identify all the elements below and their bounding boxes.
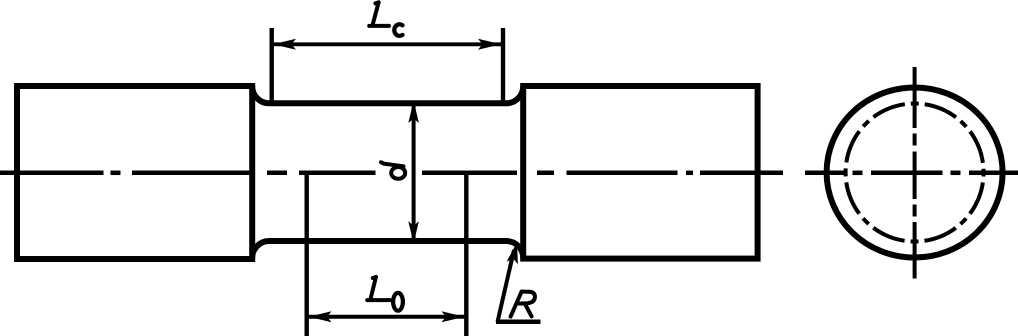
L0 extension line right (464, 171, 468, 336)
d arrow down (408, 221, 419, 243)
centerline circle view horizontal (805, 171, 1018, 176)
cross-section inner dash-dot circle (846, 104, 984, 242)
R leader line (498, 250, 515, 322)
label L0 : letter L (367, 277, 390, 300)
label R (511, 292, 535, 317)
right grip head outline (523, 86, 757, 259)
fillet top-right (506, 86, 523, 103)
R leader arrow (507, 243, 518, 265)
cross-section outer circle (827, 88, 1003, 258)
centerline circle view vertical (913, 67, 917, 279)
left grip head outline (17, 86, 252, 259)
label Lc : subscript c (394, 24, 402, 36)
label Lc : letter L (369, 2, 389, 26)
fillet bottom-left (252, 241, 269, 259)
Lc extension line right (501, 28, 505, 101)
Lc extension line left (270, 28, 274, 103)
reduced section top edge (269, 100, 506, 106)
Lc dimension line (273, 42, 501, 46)
d dimension line (412, 101, 416, 243)
centerline main view (horizontal dash-dot) (0, 171, 783, 176)
reduced section bottom edge (269, 238, 506, 244)
fillet bottom-right (506, 241, 523, 259)
label d (rotated, drawn as strokes) (381, 162, 405, 179)
L0 extension line left (305, 171, 309, 336)
L0 arrow left (309, 311, 332, 322)
L0 dimension line (309, 315, 465, 319)
R underline (496, 320, 541, 325)
Lc arrow left (273, 39, 296, 50)
label L0 : subscript 0 (393, 293, 403, 311)
d arrow up (408, 101, 419, 123)
fillet top-left (252, 86, 269, 103)
Lc arrow right (478, 39, 501, 50)
L0 arrow right (442, 311, 465, 322)
